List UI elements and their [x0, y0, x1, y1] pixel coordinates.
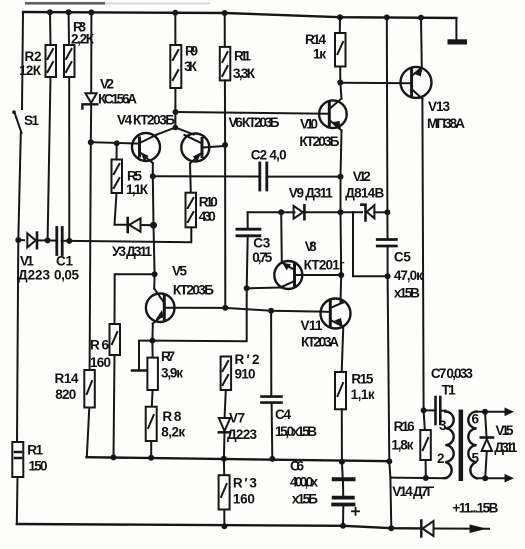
wire C1 to R10 [69, 227, 191, 242]
svg-text:Д814В: Д814В [345, 186, 384, 201]
node V15 top [482, 409, 488, 415]
wire secondary top output [477, 411, 506, 413]
svg-text:0,75: 0,75 [252, 250, 272, 265]
svg-text:T1: T1 [442, 383, 456, 398]
transistor V13 [401, 67, 432, 99]
svg-text:V10: V10 [300, 116, 318, 131]
node R5 top tee [114, 140, 120, 146]
wire V10 emitter column [341, 131, 343, 303]
capacitor C1 [55, 228, 58, 255]
svg-text:3,9к: 3,9к [161, 365, 183, 380]
node C4 bottom on bus [269, 456, 275, 462]
svg-text:КС156А: КС156А [98, 92, 137, 107]
resistor R1 [12, 442, 23, 477]
svg-text:R2: R2 [25, 49, 42, 64]
wire V10 collector [340, 83, 341, 99]
diode V3 (Д311) [126, 218, 129, 232]
node bus right end [386, 458, 392, 464]
svg-text:R14: R14 [55, 371, 79, 386]
capacitor C6 [341, 462, 344, 478]
wire bottom bus [17, 524, 421, 528]
svg-text:V4 КТ203Б: V4 КТ203Б [117, 112, 175, 127]
wire V11 emitter to R15 [342, 327, 344, 373]
svg-text:47,0к: 47,0к [394, 268, 423, 283]
node R16 bottom [423, 475, 429, 481]
diode V7 [219, 418, 230, 431]
resistor R12 (910) [221, 357, 232, 391]
svg-text:V13: V13 [428, 99, 450, 114]
svg-text:C6: C6 [290, 458, 304, 473]
diode V9 [294, 206, 303, 219]
svg-text:3,3К: 3,3К [233, 66, 256, 81]
wire V6 base to R11 [203, 146, 226, 148]
wire secondary bottom output [477, 477, 506, 479]
wire V8 collector up [280, 212, 283, 262]
resistor R3 column [68, 12, 70, 45]
svg-text:У3 Д311: У3 Д311 [112, 244, 152, 259]
svg-text:R11: R11 [234, 49, 251, 64]
wire V5 base long to V11 [165, 308, 322, 312]
svg-text:R14: R14 [305, 32, 326, 47]
wire V12 bypass loop [353, 212, 387, 276]
wire top supply bus [23, 12, 456, 18]
svg-text:V5: V5 [172, 263, 187, 278]
wire V6 collector to R10 [189, 164, 192, 193]
resistor R6 [110, 324, 121, 355]
wire V5 collector [153, 274, 155, 288]
node R6 / V5 collector junction [152, 271, 158, 277]
svg-text:V12: V12 [353, 169, 371, 184]
resistor R4 (R14 820) [84, 370, 95, 408]
node C4 top [268, 308, 274, 314]
wire V8 base right [295, 274, 342, 276]
resistor R16 [424, 410, 425, 430]
svg-text:C5: C5 [394, 249, 411, 264]
node R8 bottom on bus [148, 455, 154, 461]
node R13 bottom on bus [221, 523, 227, 529]
plus mark C6 [352, 508, 359, 515]
svg-text:КТ203Б: КТ203Б [173, 283, 214, 298]
wire V8 emitter left [247, 287, 281, 290]
svg-text:Д223: Д223 [227, 427, 257, 442]
wire V5 emitter [151, 324, 153, 341]
svg-text:V14 Д7Г: V14 Д7Г [392, 484, 434, 499]
svg-text:КТ203Б: КТ203Б [299, 134, 339, 149]
resistor R14 (1k) [339, 17, 341, 33]
svg-text:3: 3 [439, 418, 447, 433]
node V9 right on V10 column [338, 209, 344, 215]
transistor V11 [321, 299, 351, 329]
svg-text:S1: S1 [24, 113, 39, 128]
node R6 bottom on bus [111, 454, 117, 460]
transistor V6 [181, 134, 209, 164]
node R12 top [222, 305, 228, 311]
node C6 bottom on bus [340, 523, 346, 529]
svg-text:R16: R16 [394, 419, 415, 434]
transistor V5 [146, 289, 175, 324]
wire input line V1/C1 [18, 239, 24, 241]
svg-text:400,0х: 400,0х [290, 474, 318, 489]
diode V15 [485, 412, 487, 437]
wire C2 coupling [153, 175, 259, 177]
transformer T1 core [459, 410, 464, 482]
svg-text:910: 910 [235, 367, 256, 382]
zener V12 [361, 205, 365, 221]
node V8 emitter junction [244, 285, 250, 291]
transformer T1 primary [445, 411, 454, 478]
svg-text:820: 820 [55, 387, 76, 402]
svg-text:150: 150 [29, 458, 48, 473]
resistor R7 [151, 341, 153, 358]
svg-text:V11: V11 [301, 318, 323, 333]
wire V13 emitter column [422, 99, 423, 411]
svg-text:C7 0,033: C7 0,033 [431, 366, 473, 381]
transistor V8 [274, 261, 302, 289]
resistor R9 column [174, 13, 176, 45]
node V1 left junction [15, 237, 21, 243]
svg-text:R7: R7 [161, 349, 175, 364]
svg-text:R5: R5 [127, 168, 142, 183]
svg-text:х15Б: х15Б [292, 491, 318, 506]
diode V14 [420, 521, 423, 537]
svg-text:C3: C3 [253, 236, 270, 251]
resistor R11 column [224, 13, 226, 47]
svg-text:КТ201г: КТ201г [304, 258, 345, 273]
node V8 collector junction [278, 209, 284, 215]
svg-text:КТ203А: КТ203А [301, 334, 339, 349]
svg-text:R6: R6 [90, 338, 109, 353]
wire T1 primary bottom [390, 477, 444, 480]
switch S1 [14, 112, 21, 134]
wire V10 base [176, 112, 329, 114]
node C5 bottom junction [385, 273, 391, 279]
svg-text:C2 4,0: C2 4,0 [251, 147, 287, 162]
svg-text:2: 2 [437, 451, 445, 466]
wire R6 top [115, 274, 155, 324]
node V15 bottom [482, 475, 488, 481]
node C2 left junction [150, 173, 156, 179]
node V14 bus junction [388, 525, 394, 531]
capacitor C7 [424, 409, 435, 411]
svg-text:х15В: х15В [394, 286, 420, 301]
svg-text:1,1К: 1,1К [126, 182, 149, 197]
wire V13 base [340, 82, 410, 85]
svg-text:R′3: R′3 [233, 475, 257, 490]
svg-text:R1: R1 [27, 443, 43, 458]
svg-text:15,0х15В: 15,0х15В [275, 424, 317, 439]
svg-text:0,05: 0,05 [54, 268, 79, 283]
resistor R15 [335, 372, 346, 409]
svg-text:Д311: Д311 [494, 440, 517, 455]
diode V1 [27, 233, 35, 247]
wire left rail upper [22, 12, 23, 109]
svg-text:6: 6 [472, 411, 480, 426]
svg-text:МП38А: МП38А [427, 116, 465, 131]
svg-text:3К: 3К [184, 59, 198, 74]
resistor R10 [186, 193, 197, 228]
transformer T1 secondary [468, 412, 476, 479]
node C2 right on V10 emitter column [338, 174, 344, 180]
svg-text:V15: V15 [496, 423, 514, 438]
svg-text:160: 160 [233, 491, 255, 506]
svg-text:V1: V1 [20, 254, 34, 269]
node C7/R16 junction [421, 407, 427, 413]
node V5 emitter junction [149, 338, 155, 344]
svg-text:5: 5 [472, 450, 480, 465]
capacitor C4 [270, 311, 272, 395]
capacitor C5 [386, 212, 388, 238]
node R2/C1 junction [45, 237, 51, 243]
svg-text:C4: C4 [275, 407, 291, 422]
wire V13 collector to bus [420, 18, 423, 68]
wire V4 emitter to R9 node [157, 128, 194, 135]
svg-text:+11...15В: +11...15В [452, 500, 498, 515]
resistor R8 [146, 407, 157, 441]
svg-text:R8: R8 [162, 409, 181, 424]
node R14 bottom / V13 base [337, 80, 343, 86]
transistor V4 [132, 133, 160, 163]
svg-text:430: 430 [199, 209, 216, 224]
svg-text:1к: 1к [313, 47, 326, 62]
node V4 base tee [88, 139, 94, 145]
node V7 bottom on bus [221, 456, 227, 462]
node V5 collector / diode junction [150, 222, 157, 229]
capacitor C2 [258, 163, 261, 190]
svg-text:R10: R10 [199, 195, 218, 210]
wire V4 base [91, 142, 139, 143]
resistor R2 column [49, 12, 52, 45]
wire V9/V12 node row [248, 211, 282, 213]
transistor V10 [319, 99, 347, 131]
svg-text:1,1к: 1,1к [351, 387, 375, 402]
svg-text:C1: C1 [56, 254, 73, 269]
capacitor C3 [247, 212, 249, 228]
svg-text:R15: R15 [351, 372, 373, 387]
node V10 base tee on R9 column [173, 109, 179, 115]
zener V2 column [90, 12, 92, 93]
svg-text:V8: V8 [305, 239, 317, 254]
svg-text:V7: V7 [229, 411, 245, 426]
node diff pair common emitters [173, 125, 179, 131]
node R15/C6 on bus [339, 459, 345, 465]
svg-text:160: 160 [90, 355, 111, 370]
svg-text:2,2К: 2,2К [71, 32, 95, 47]
wire R7 tap stub [139, 341, 152, 371]
wire left rail lower [17, 240, 18, 442]
node V12/C5 top junction [384, 209, 390, 215]
svg-text:V6 КТ203Б: V6 КТ203Б [229, 115, 280, 130]
ground [455, 18, 457, 40]
svg-text:Д223: Д223 [18, 268, 50, 283]
zener diode V2 [86, 93, 97, 103]
node V8 base on V10 column [338, 272, 344, 278]
svg-text:1,8к: 1,8к [391, 437, 413, 452]
wire supply column x=387 [386, 17, 389, 212]
svg-text:8,2к: 8,2к [161, 424, 185, 439]
svg-text:R′2: R′2 [235, 352, 260, 367]
wire V4 collector down to C2 node [152, 163, 154, 176]
svg-text:12К: 12К [19, 63, 42, 78]
resistor R5 [116, 143, 118, 159]
node V6 base junction [222, 142, 228, 148]
node C1/R3 junction [66, 238, 72, 244]
node top bus junction dots [47, 9, 424, 20]
svg-text:R9: R9 [185, 44, 198, 59]
svg-text:V2: V2 [100, 77, 114, 92]
wire emitter feedback to V8 [152, 288, 246, 341]
resistor R13 (160) [223, 459, 225, 475]
wire middle common bus [87, 457, 391, 461]
wire V11 base [321, 311, 330, 313]
svg-text:V9 Д311: V9 Д311 [289, 186, 333, 201]
